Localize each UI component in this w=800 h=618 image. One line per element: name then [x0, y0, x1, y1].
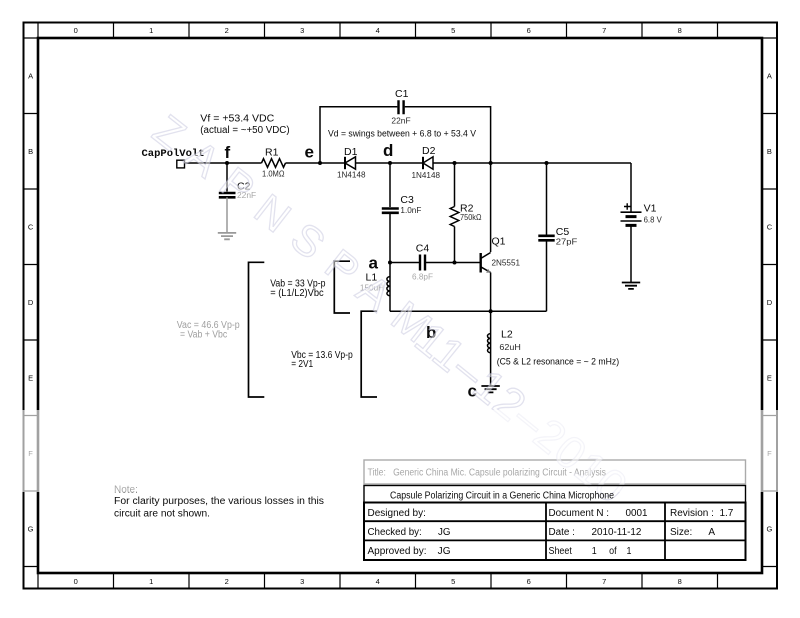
- svg-text:Revision : 1.7: Revision : 1.7: [670, 508, 734, 519]
- svg-text:Designed by:: Designed by:: [368, 508, 426, 519]
- svg-text:2N5551: 2N5551: [492, 257, 521, 267]
- svg-text:B: B: [767, 147, 772, 156]
- svg-text:Vd = swings between + 6.8 to +: Vd = swings between + 6.8 to + 53.4 V: [328, 128, 477, 139]
- svg-text:V1: V1: [644, 203, 657, 215]
- svg-text:1: 1: [149, 577, 153, 586]
- svg-text:6.8 V: 6.8 V: [644, 215, 662, 225]
- svg-text:Document N : 0001: Document N : 0001: [549, 508, 648, 519]
- svg-text:Vf = +53.4 VDC: Vf = +53.4 VDC: [200, 114, 274, 125]
- svg-text:d: d: [383, 141, 393, 160]
- svg-text:(C5 & L2 resonance = ~ 2 mHz): (C5 & L2 resonance = ~ 2 mHz): [497, 357, 619, 368]
- svg-text:G: G: [766, 524, 772, 533]
- svg-text:6: 6: [527, 577, 531, 586]
- svg-text:750kΩ: 750kΩ: [460, 212, 482, 222]
- svg-text:0: 0: [74, 26, 78, 35]
- svg-text:3: 3: [300, 26, 304, 35]
- svg-text:D1: D1: [344, 146, 358, 158]
- svg-text:6.8pF: 6.8pF: [412, 272, 433, 282]
- svg-text:8: 8: [678, 26, 682, 35]
- svg-text:6: 6: [527, 26, 531, 35]
- svg-text:2: 2: [225, 577, 229, 586]
- svg-text:R1: R1: [265, 146, 279, 158]
- svg-text:62uH: 62uH: [499, 342, 520, 352]
- svg-text:27pF: 27pF: [556, 236, 578, 246]
- svg-text:A: A: [767, 71, 772, 80]
- svg-text:0: 0: [74, 577, 78, 586]
- svg-text:1.0nF: 1.0nF: [400, 205, 421, 215]
- svg-text:Approved by: JG: Approved by: JG: [368, 546, 451, 557]
- svg-text:4: 4: [376, 26, 380, 35]
- svg-text:= (L1/L2)Vbc: = (L1/L2)Vbc: [270, 288, 324, 299]
- svg-text:E: E: [28, 373, 33, 382]
- svg-text:1N4148: 1N4148: [412, 170, 441, 180]
- svg-text:= Vab + Vbc: = Vab + Vbc: [180, 329, 227, 340]
- svg-text:G: G: [28, 524, 34, 533]
- svg-text:22nF: 22nF: [391, 115, 410, 125]
- svg-text:Q1: Q1: [492, 235, 506, 247]
- svg-text:Date : 2010-11-12: Date : 2010-11-12: [549, 527, 642, 538]
- svg-text:Sheet 1 of 1: Sheet 1 of 1: [549, 546, 632, 557]
- svg-text:2: 2: [225, 26, 229, 35]
- svg-text:3: 3: [300, 577, 304, 586]
- svg-text:A: A: [28, 71, 33, 80]
- svg-text:5: 5: [451, 26, 455, 35]
- svg-text:B: B: [28, 147, 33, 156]
- svg-text:Checked by: JG: Checked by: JG: [368, 527, 451, 538]
- svg-text:For clarity purposes, the vari: For clarity purposes, the various losses…: [114, 496, 324, 507]
- svg-text:D2: D2: [422, 145, 436, 157]
- svg-text:e: e: [305, 143, 314, 162]
- svg-text:4: 4: [376, 577, 380, 586]
- svg-text:circuit are not shown.: circuit are not shown.: [114, 508, 210, 519]
- svg-text:5: 5: [451, 577, 455, 586]
- svg-text:C4: C4: [416, 242, 430, 254]
- svg-text:C: C: [767, 222, 773, 231]
- svg-text:8: 8: [678, 577, 682, 586]
- svg-text:D: D: [767, 298, 773, 307]
- svg-text:L2: L2: [501, 329, 513, 341]
- svg-text:E: E: [767, 373, 772, 382]
- svg-text:1N4148: 1N4148: [337, 170, 366, 180]
- svg-text:7: 7: [602, 577, 606, 586]
- svg-text:Capsule Polarizing Circuit in: Capsule Polarizing Circuit in a Generic …: [390, 491, 614, 502]
- svg-text:1: 1: [149, 26, 153, 35]
- svg-text:Size: A: Size: A: [670, 527, 715, 538]
- svg-text:= 2V1: = 2V1: [291, 359, 313, 370]
- svg-text:(actual = ~+50 VDC): (actual = ~+50 VDC): [200, 125, 289, 136]
- svg-text:7: 7: [602, 26, 606, 35]
- svg-text:C: C: [28, 222, 34, 231]
- svg-text:C1: C1: [395, 88, 409, 100]
- svg-text:D: D: [28, 298, 34, 307]
